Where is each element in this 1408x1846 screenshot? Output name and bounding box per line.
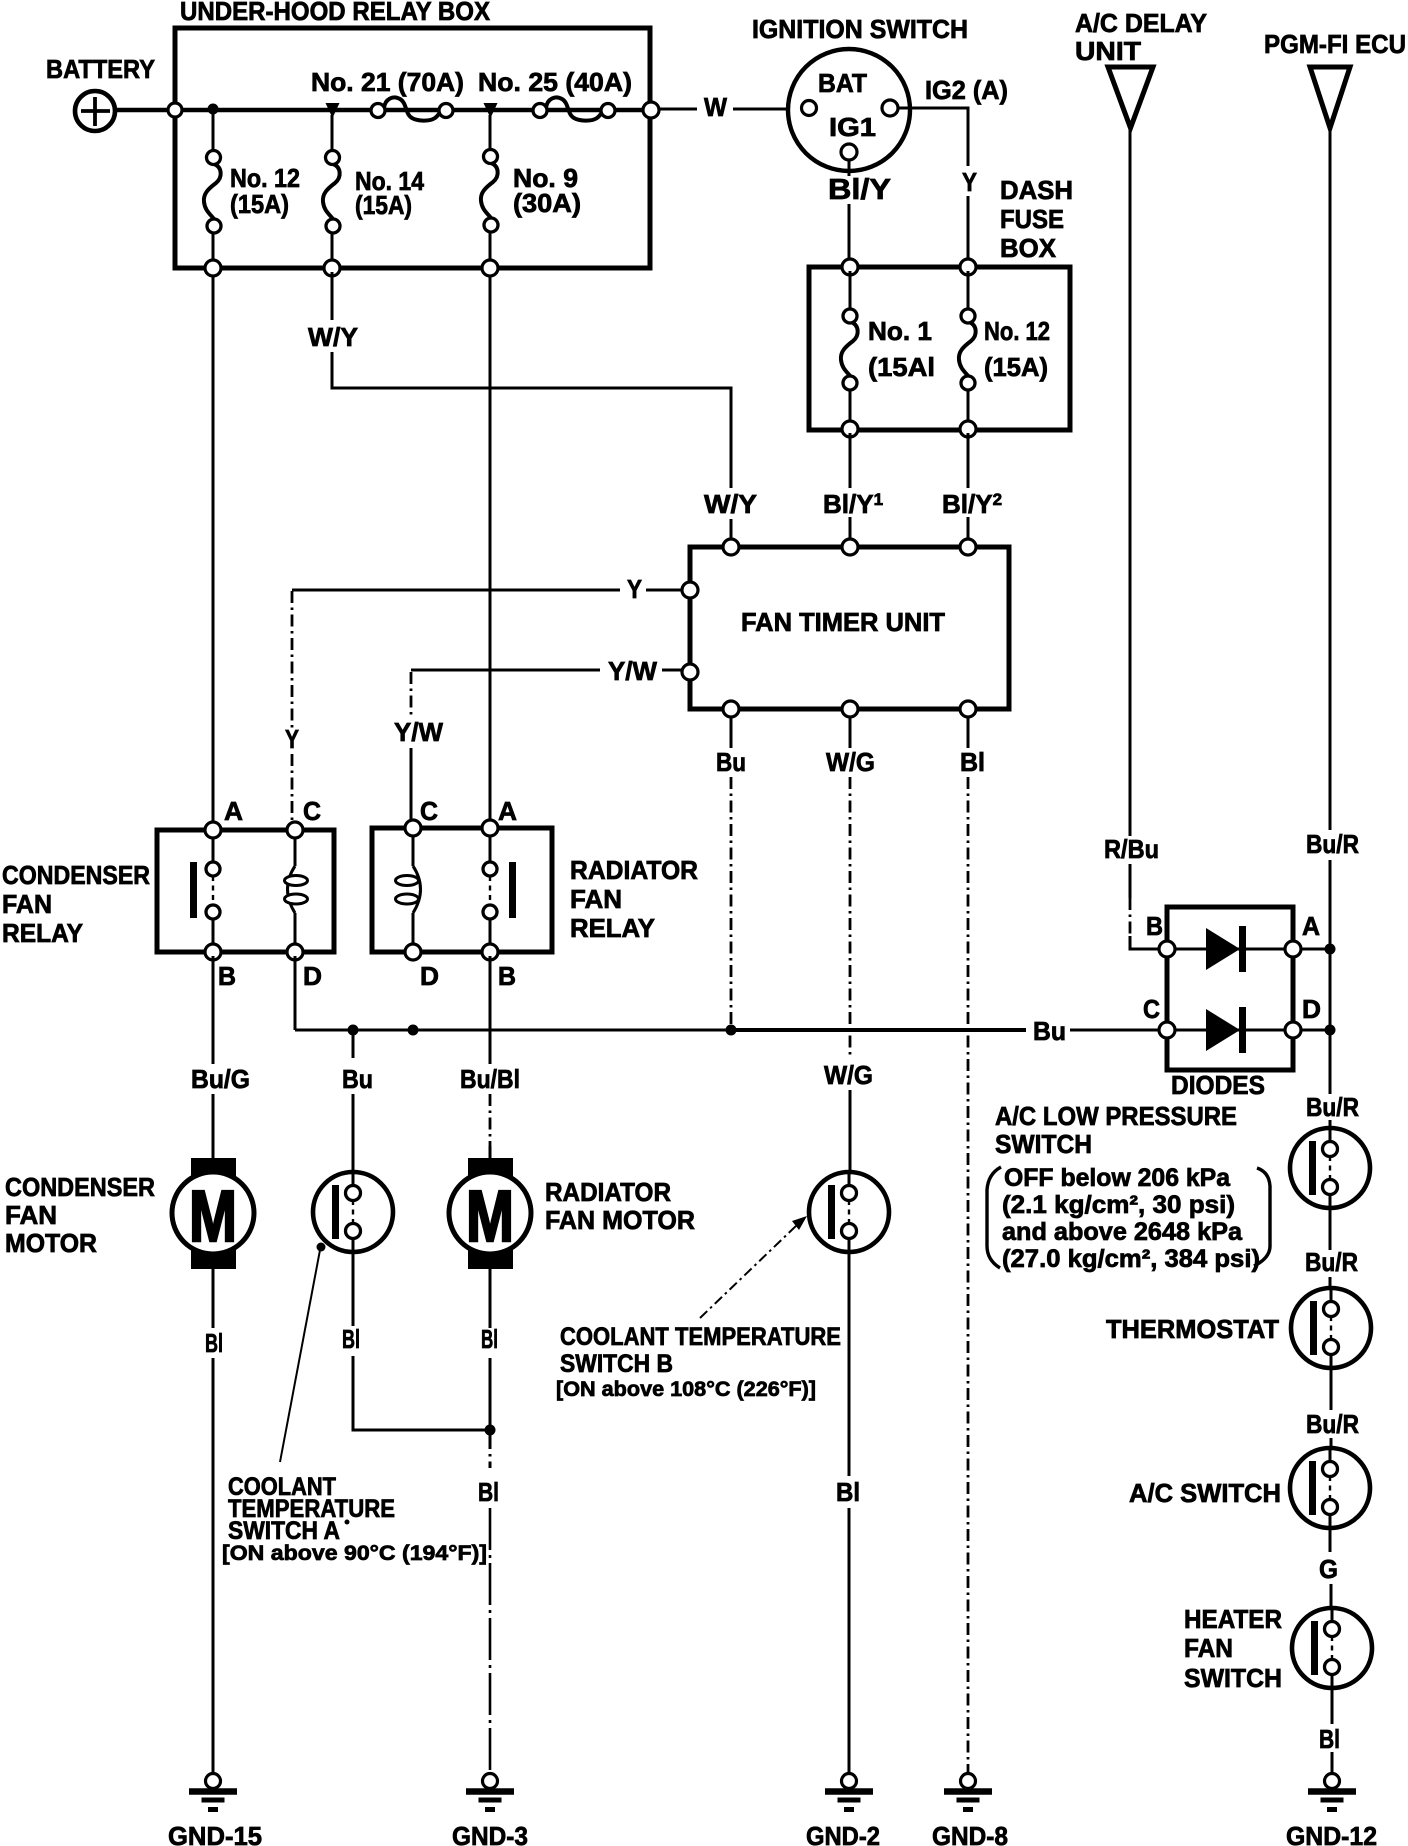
ground GND-12 [1286,1774,1377,1846]
svg-text:W/Y: W/Y [308,322,358,352]
svg-text:IG2 (A): IG2 (A) [925,75,1008,105]
svg-text:C: C [303,796,321,826]
svg-text:FAN: FAN [1184,1633,1233,1663]
svg-text:SWITCH B: SWITCH B [560,1350,673,1378]
heater fan switch SW5 [1184,1604,1372,1693]
wire W box to ignition BAT [659,92,798,122]
ground GND-15 [168,1774,262,1846]
wire Bl/Y2 to fan timer [942,433,1002,547]
fuse No.12 (15A) dash box [959,271,1050,425]
svg-text:IG1: IG1 [829,112,876,142]
svg-text:GND-15: GND-15 [168,1821,262,1846]
pin A radiator relay [482,796,517,836]
svg-text:Bu/R: Bu/R [1306,1409,1359,1439]
pin B diodes [1146,911,1175,957]
pin BAT [802,101,817,116]
svg-text:UNDER-HOOD RELAY BOX: UNDER-HOOD RELAY BOX [180,0,491,26]
wire Bu/Bl relay B to radiator motor [460,956,520,1160]
thermostat switch SW3 [1106,1288,1371,1368]
svg-text:and above 2648 kPa: and above 2648 kPa [1002,1218,1243,1246]
svg-text:Bu/Bl: Bu/Bl [460,1064,520,1094]
svg-text:C: C [1143,994,1160,1024]
fuse No.21 (70A) [311,67,464,121]
svg-text:D: D [303,961,322,991]
node dash box bottom terminals [842,421,858,437]
svg-text:A/C SWITCH: A/C SWITCH [1129,1478,1281,1508]
wire G to heater fan switch [1319,1528,1338,1608]
wire Bu/R to a/c switch [1306,1368,1359,1448]
svg-text:W/G: W/G [824,1060,873,1090]
pin Y/W timer left [682,664,698,680]
svg-text:GND-3: GND-3 [452,1821,528,1846]
pin D diodes [1285,994,1321,1038]
svg-text:Y: Y [285,724,299,754]
under-hood relay box U1 [175,0,650,268]
node junction Bu radiator D [408,1025,419,1036]
svg-text:HEATER: HEATER [1184,1604,1282,1634]
wire No.14 fuse column [331,115,334,268]
svg-text:Bl/Y: Bl/Y [828,174,891,206]
node box right terminal [643,102,659,118]
svg-text:W/G: W/G [826,747,875,777]
svg-text:COOLANT TEMPERATURE: COOLANT TEMPERATURE [560,1323,841,1351]
wire Bu bus horizontal [295,1016,1167,1046]
svg-text:(15A): (15A) [984,352,1048,382]
pin W/G timer bottom [842,701,858,717]
svg-text:No. 25 (40A): No. 25 (40A) [478,67,632,97]
pin Bl/Y1 timer top [842,539,858,555]
svg-text:A: A [498,796,517,826]
svg-text:Bu: Bu [716,747,746,777]
fan timer unit U3 [690,547,1009,709]
wire battery to box [115,108,176,112]
svg-text:W/Y: W/Y [704,489,757,519]
node terminal No.12 bottom [205,260,221,276]
svg-text:R/Bu: R/Bu [1104,834,1159,864]
fuse No.9 (30A) [481,150,581,233]
svg-text:FAN TIMER UNIT: FAN TIMER UNIT [741,607,945,637]
condenser fan motor M1 [5,1158,254,1269]
node junction Bu timer [726,1025,737,1036]
svg-text:Bl: Bl [205,1328,223,1358]
pin IG2 [882,100,898,116]
svg-text:BATTERY: BATTERY [46,54,155,84]
node junction diode A [1325,944,1336,955]
svg-text:M: M [466,1177,514,1257]
coolant temperature switch A [313,1172,393,1252]
svg-text:FAN: FAN [570,884,622,914]
wire W/G from timer down [824,713,875,1172]
svg-text:Y/W: Y/W [608,656,657,686]
ignition switch SW1 [752,14,968,171]
fuse No.14 (15A) [323,151,425,234]
wire Y fan timer to condenser relay C [285,574,682,826]
svg-text:PGM-FI ECU: PGM-FI ECU [1264,29,1406,59]
fuse No.25 (40A) [478,67,632,121]
svg-text:B: B [1146,911,1163,941]
wire Bu/G relay B to condenser motor [191,956,250,1160]
radiator fan relay K2 [372,828,698,952]
wire diode D to Bu/R line [1293,1029,1330,1032]
wire Bl condenser motor to GND-15 [205,1269,223,1772]
pin Bl timer bottom [960,701,976,717]
fuse No.12 (15A) [204,151,300,234]
node box left terminal [168,103,182,117]
svg-text:Bl: Bl [1319,1724,1340,1754]
svg-text:D: D [1302,994,1321,1024]
relay K2 coil [396,832,421,948]
wire Bl radiator motor to GND-3 [478,1269,499,1772]
svg-text:FAN MOTOR: FAN MOTOR [545,1205,695,1235]
pointer line coolant switch B [700,1216,807,1318]
pin Bu timer bottom [723,701,739,717]
svg-text:GND-12: GND-12 [1286,1821,1377,1846]
wire Bu from timer down [716,713,746,1030]
pin A condenser relay [205,796,243,838]
svg-text:A: A [224,796,243,826]
svg-text:No. 12: No. 12 [984,316,1050,346]
svg-text:C: C [420,796,438,826]
ground GND-8 [932,1774,1008,1846]
svg-text:CONDENSER: CONDENSER [2,860,150,890]
svg-text:Bl: Bl [960,747,985,777]
ground GND-2 [806,1774,880,1846]
diode D2 bottom [1175,1007,1285,1053]
svg-text:BOX: BOX [1000,233,1057,263]
label coolant temperature switch A [222,1473,487,1565]
svg-text:MOTOR: MOTOR [5,1228,97,1258]
svg-text:A/C LOW PRESSURE: A/C LOW PRESSURE [995,1101,1237,1131]
wire Bl from timer to GND-8 [960,713,985,1772]
node dash box top terminals [842,259,858,275]
svg-text:Bu/R: Bu/R [1306,829,1359,859]
wire Bu to coolant temp switch A [342,1030,373,1172]
svg-text:Bu/G: Bu/G [191,1064,250,1094]
svg-text:G: G [1319,1554,1338,1584]
node terminal No.14 bottom [324,260,340,276]
svg-text:No. 21 (70A): No. 21 (70A) [311,67,464,97]
svg-text:GND-2: GND-2 [806,1821,880,1846]
pin D radiator relay [405,944,439,991]
wire Bu/R pgm-fi ecu down [1306,128,1359,1128]
svg-text:Y: Y [627,574,642,604]
wire Bl coolant switch B to GND-2 [836,1252,860,1772]
svg-text:Bu: Bu [342,1064,373,1094]
ground GND-3 [452,1774,528,1846]
wire main bus W [175,108,650,112]
a/c delay unit connector [1075,8,1207,128]
svg-text:B: B [498,961,516,991]
svg-text:THERMOSTAT: THERMOSTAT [1106,1314,1279,1344]
svg-text:(15A): (15A) [355,190,412,220]
condenser fan relay K1 [2,830,334,952]
node junction battery bus [208,104,219,115]
wire Bl heater switch to GND-12 [1319,1688,1340,1772]
pin IG1 [841,144,857,160]
svg-text:FAN: FAN [5,1200,57,1230]
wire Bu/R to thermostat [1305,1208,1358,1288]
svg-text:RADIATOR: RADIATOR [545,1177,671,1207]
wire Bl/Y IG1 to dash fuse box [828,160,891,267]
pin D condenser relay [287,944,322,991]
fuse No.1 (15A) dash box [841,271,935,425]
svg-text:Bl: Bl [342,1324,360,1354]
wire relay D to Bu bus [294,956,297,1030]
svg-text:SWITCH: SWITCH [1184,1663,1282,1693]
svg-text:D: D [420,961,439,991]
svg-text:FUSE: FUSE [1000,204,1064,234]
label a/c low pressure switch [987,1101,1270,1273]
pointer line coolant switch A [280,1243,326,1463]
node junction Bl radiator [485,1425,496,1436]
svg-text:A/C DELAY: A/C DELAY [1075,8,1207,38]
svg-text:RELAY: RELAY [570,913,655,943]
diodes box D1 D2 [1167,907,1293,1100]
pin B radiator relay [482,944,516,991]
relay K1 coil [285,834,308,948]
svg-text:RADIATOR: RADIATOR [570,855,698,885]
svg-text:A: A [1302,911,1320,941]
svg-text:Bl: Bl [481,1324,498,1354]
coolant temperature switch B [809,1172,889,1252]
wire diode A to Bu/R line [1293,948,1330,951]
svg-text:FAN: FAN [2,889,52,919]
wire No.12 fuse column [212,112,215,830]
node junction Bu coolant A [348,1025,359,1036]
wire No.9 fuse column [489,115,492,828]
svg-text:[ON above 108°C (226°F)]: [ON above 108°C (226°F)] [556,1377,816,1401]
pgm-fi ecu connector [1264,29,1406,128]
a/c switch SW4 [1129,1448,1370,1528]
svg-text:RELAY: RELAY [2,918,83,948]
battery BT1 [46,54,155,131]
pin A diodes [1285,911,1320,957]
svg-text:Y: Y [962,167,977,197]
svg-text:Bl: Bl [478,1477,499,1507]
pin B condenser relay [205,944,236,991]
dash fuse box U2 [809,175,1073,430]
svg-text:M: M [189,1177,237,1257]
svg-text:DASH: DASH [1000,175,1073,205]
diode D1 top [1175,926,1285,972]
svg-text:OFF below 206 kPa: OFF below 206 kPa [1004,1164,1231,1192]
pin Bl/Y2 timer top [960,539,976,555]
wire IG2 (A) to dash fuse box [898,75,1008,267]
a/c low pressure switch SW2 [1290,1128,1370,1208]
pin Y timer left [682,582,698,598]
node junction No.14 tap [326,103,340,118]
pin C diodes [1143,994,1175,1038]
svg-text:GND-8: GND-8 [932,1821,1008,1846]
node junction diode D [1325,1025,1336,1036]
svg-text:CONDENSER: CONDENSER [5,1172,155,1202]
node junction No.9 tap [484,103,498,118]
svg-text:SWITCH: SWITCH [995,1129,1092,1159]
svg-text:(15Al: (15Al [868,352,935,382]
svg-text:No. 1: No. 1 [868,316,932,346]
label coolant temperature switch B [556,1323,841,1401]
pin C condenser relay [287,796,321,838]
svg-text:(27.0 kg/cm², 384 psi): (27.0 kg/cm², 384 psi) [1002,1245,1260,1273]
svg-text:BAT: BAT [818,68,867,98]
wire Y/W fan timer to radiator relay C [394,656,682,826]
svg-text:(30A): (30A) [513,188,581,218]
svg-text:B: B [218,961,236,991]
pin C radiator relay [405,796,438,836]
svg-text:[ON above 90°C (194°F)]: [ON above 90°C (194°F)] [222,1541,487,1565]
svg-text:Bl: Bl [836,1477,860,1507]
relay K1 contact [190,834,220,948]
svg-text:(15A): (15A) [230,189,289,219]
pin W/Y timer top [723,539,739,555]
wire coolant switch A to junction [342,1252,490,1430]
svg-text:UNIT: UNIT [1075,36,1141,66]
svg-text:Bu: Bu [1033,1016,1066,1046]
svg-text:DIODES: DIODES [1171,1070,1265,1100]
relay K2 contact [483,832,516,948]
wire Bl/Y1 to fan timer [823,433,883,547]
radiator fan motor M2 [449,1158,695,1269]
wire W/Y from No.14 to fan timer [308,272,731,547]
svg-text:IGNITION SWITCH: IGNITION SWITCH [752,14,968,44]
wire R/Bu a/c delay unit to diode B [1104,128,1159,949]
svg-text:Y/W: Y/W [394,717,443,747]
node terminal No.9 bottom [482,260,498,276]
svg-text:Bu/R: Bu/R [1305,1247,1358,1277]
svg-text:Bu/R: Bu/R [1306,1092,1359,1122]
svg-text:(2.1 kg/cm², 30 psi): (2.1 kg/cm², 30 psi) [1002,1191,1235,1219]
svg-text:W: W [704,92,727,122]
